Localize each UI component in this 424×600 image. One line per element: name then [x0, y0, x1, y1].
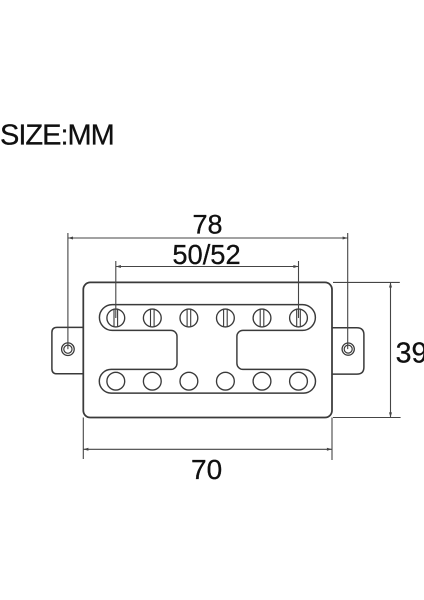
svg-text:39: 39 — [396, 337, 424, 369]
svg-text:50/52: 50/52 — [172, 239, 240, 270]
svg-text:SIZE:MM: SIZE:MM — [0, 120, 114, 152]
svg-text:70: 70 — [191, 454, 222, 485]
svg-text:78: 78 — [192, 210, 222, 240]
